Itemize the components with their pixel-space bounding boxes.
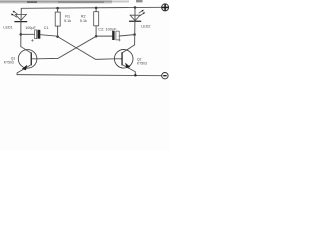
svg-text:5.1k: 5.1k [80, 19, 87, 23]
wire C1 right lead to node A [40, 35, 57, 37]
svg-text:LED2: LED2 [141, 24, 150, 28]
terminal + (top right) [162, 4, 169, 11]
node B (R2 bottom junction) [95, 35, 98, 38]
wire R1 top lead [57, 8, 59, 12]
svg-text:KT503: KT503 [137, 61, 147, 65]
transistor Q2 [114, 50, 135, 76]
wire cross-coupling A to Q2 base [58, 37, 122, 60]
capacitor C2 [112, 31, 120, 41]
transistor Q1 [17, 47, 37, 75]
node Q1 collector / C1 tap [20, 33, 23, 36]
node R1 top rail tap [56, 7, 59, 10]
node Q2 emitter junction [134, 74, 137, 77]
resistor R2 [94, 12, 99, 26]
wire C2 right lead [119, 35, 134, 36]
wire LED2 anode drop [134, 8, 136, 22]
svg-text:C1: C1 [44, 26, 49, 30]
resistor R1 [55, 12, 60, 26]
wire C2 left lead [96, 35, 112, 37]
svg-text:LED1: LED1 [3, 26, 12, 30]
wire C1 left lead [21, 33, 35, 35]
wire cross-coupling B to Q1 base [32, 36, 97, 59]
wire R2 top lead [95, 8, 97, 12]
wire LED1 anode drop [20, 8, 22, 21]
LED1 [11, 11, 27, 22]
labels [3, 14, 150, 65]
svg-text:R1: R1 [65, 14, 70, 18]
capacitor C1 [31, 30, 40, 42]
svg-text:5.1k: 5.1k [64, 19, 71, 23]
wire bottom rail [17, 75, 162, 76]
wire top rail [21, 7, 162, 8]
svg-text:100µF: 100µF [25, 26, 36, 30]
wire LED2 cathode to Q2 collector [123, 21, 135, 52]
wire R1 bottom lead [57, 26, 59, 36]
top scan edge artifact [0, 0, 143, 4]
svg-text:R2: R2 [81, 14, 86, 18]
wire R2 bottom lead [95, 26, 97, 37]
wire LED1 cathode to Q1 collector [20, 22, 22, 47]
node LED2 top rail tap [134, 6, 137, 9]
node C2 / Q2 collector tap [133, 33, 136, 36]
LED2 [130, 10, 146, 21]
svg-text:C2: 100µF: C2: 100µF [98, 27, 117, 31]
node R2 top rail tap [95, 7, 98, 9]
node A (R1 bottom junction) [56, 35, 59, 38]
svg-text:KT503: KT503 [4, 61, 14, 65]
terminal - (bottom right) [162, 73, 168, 79]
